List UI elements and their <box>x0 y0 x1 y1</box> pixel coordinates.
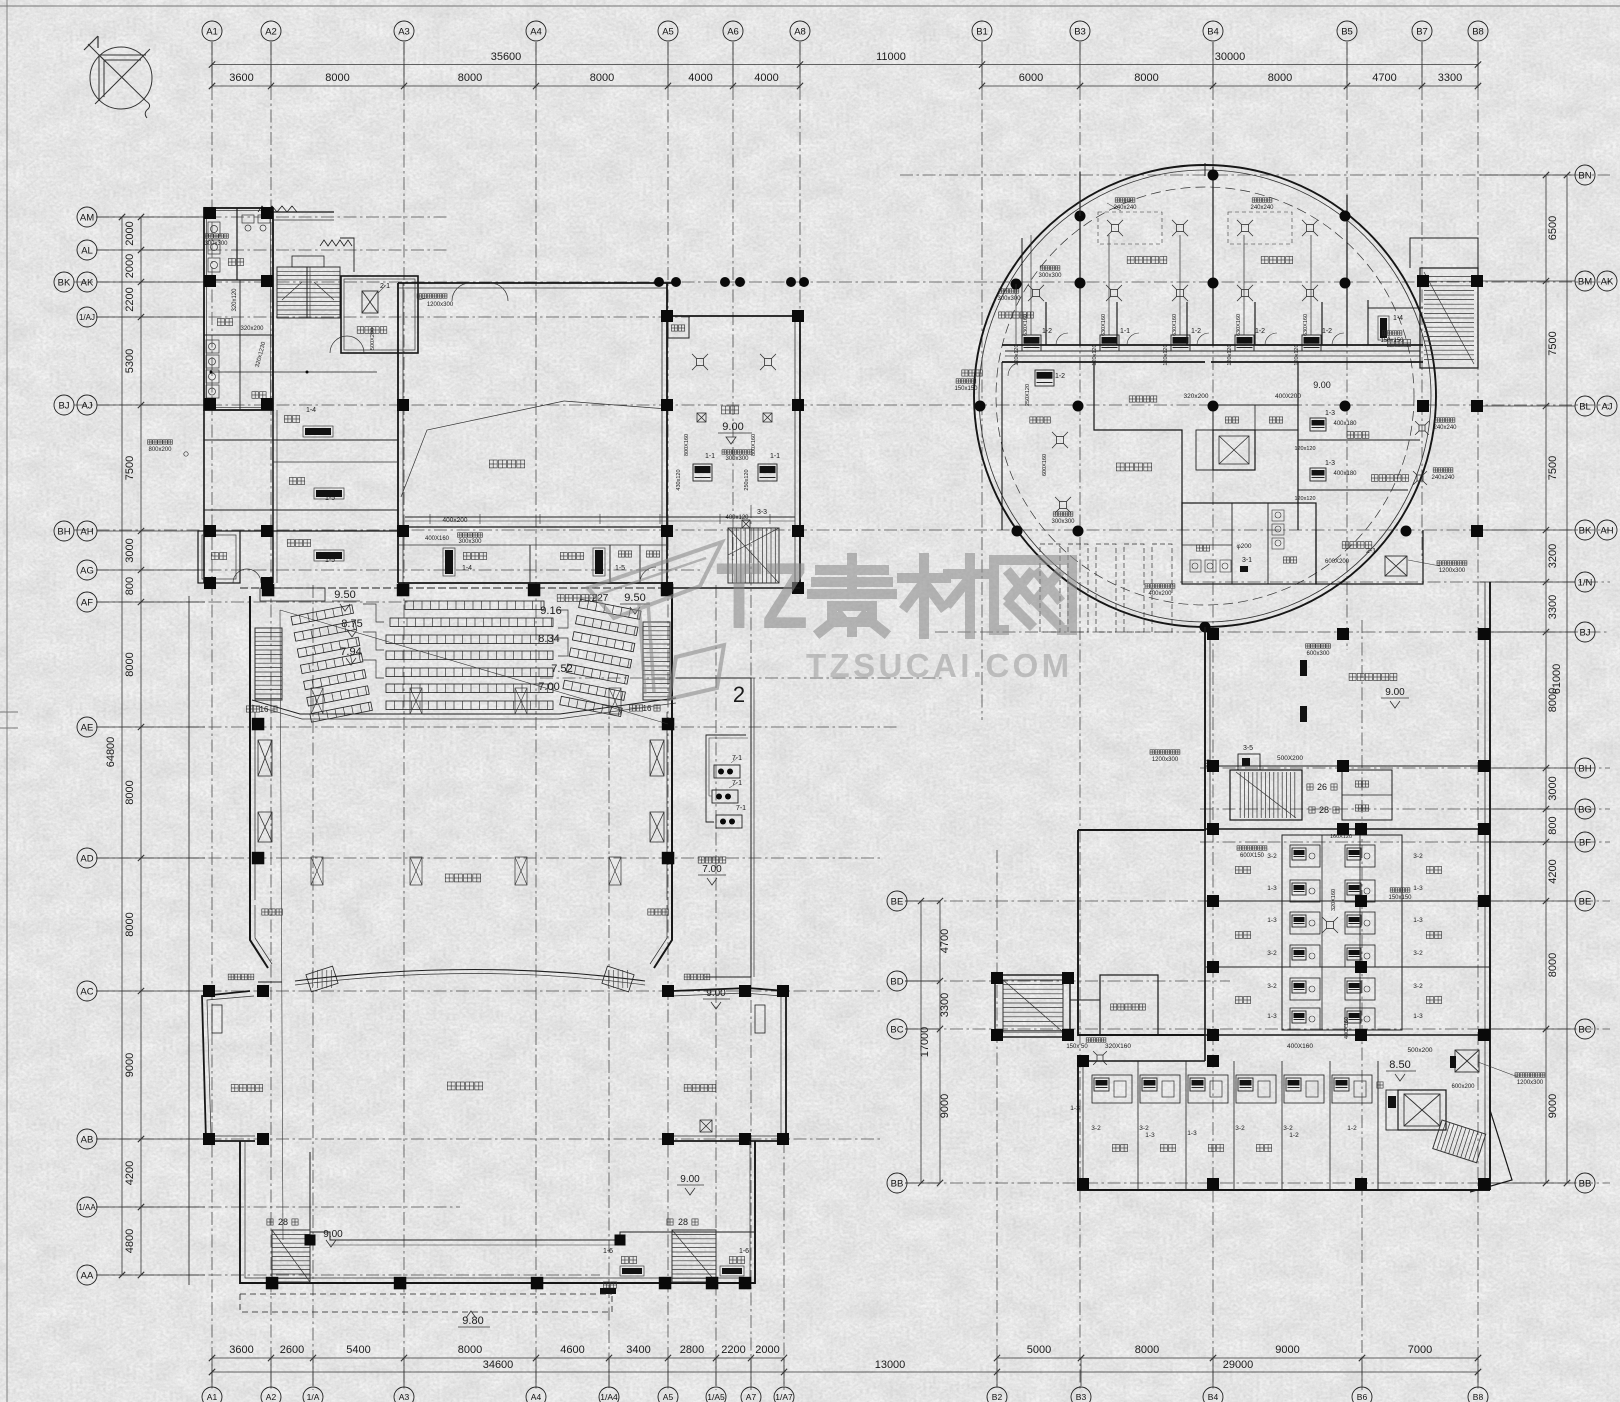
svg-text:4000: 4000 <box>754 72 778 84</box>
metal ladder labels <box>228 974 254 980</box>
columns AC AB rows stage <box>203 985 215 997</box>
svg-text:1-4: 1-4 <box>306 407 316 414</box>
svg-text:1/A4: 1/A4 <box>600 1392 618 1402</box>
west wing partitions <box>204 439 398 441</box>
svg-text:9.00: 9.00 <box>1313 380 1331 390</box>
axis bubbles right <box>1575 165 1595 185</box>
svg-text:3600: 3600 <box>229 1344 253 1356</box>
svg-text:7500: 7500 <box>124 456 136 480</box>
svg-text:120x120: 120x120 <box>1092 344 1098 365</box>
svg-text:8000: 8000 <box>1134 72 1158 84</box>
south annex outer wall <box>240 1141 755 1283</box>
svg-text:320X160: 320X160 <box>1331 889 1337 911</box>
svg-text:150x150: 150x150 <box>1388 895 1412 901</box>
annex columns <box>204 207 216 219</box>
svg-text:630X160: 630X160 <box>1236 314 1242 336</box>
svg-text:BJ: BJ <box>1579 627 1590 638</box>
svg-text:AC: AC <box>80 986 93 997</box>
svg-text:1-2: 1-2 <box>1322 328 1332 335</box>
svg-text:TZ: TZ <box>716 543 808 648</box>
svg-text:1200x300: 1200x300 <box>1152 757 1179 763</box>
svg-text:61000: 61000 <box>1551 664 1563 695</box>
stage columns AE AD rows <box>252 718 264 731</box>
svg-text:630X160: 630X160 <box>1023 314 1029 336</box>
axis bubbles left <box>77 207 97 227</box>
stage west wall <box>249 596 251 905</box>
svg-text:B7: B7 <box>1416 26 1428 37</box>
svg-text:2000: 2000 <box>755 1344 779 1356</box>
svg-text:250X120: 250X120 <box>1025 384 1031 406</box>
horizontal grid axes right building <box>900 174 1610 176</box>
svg-text:B6: B6 <box>1357 1392 1368 1402</box>
svg-text:150x150: 150x150 <box>1380 338 1404 344</box>
svg-text:9.00: 9.00 <box>1385 687 1405 698</box>
svg-text:34600: 34600 <box>483 1359 514 1371</box>
main hall top wall <box>398 282 672 284</box>
svg-text:1-4: 1-4 <box>1393 315 1403 322</box>
svg-text:1-1: 1-1 <box>1120 328 1130 335</box>
svg-text:7.00: 7.00 <box>702 864 722 875</box>
annex internal walls <box>204 279 273 281</box>
svg-text:600x300: 600x300 <box>1306 651 1330 657</box>
radial partition walls upper <box>1079 172 1081 345</box>
conference columns <box>661 310 673 322</box>
watermark logo parallelogram <box>669 645 724 699</box>
svg-text:2200: 2200 <box>124 287 136 311</box>
svg-text:8000: 8000 <box>124 652 136 676</box>
svg-text:4600: 4600 <box>560 1344 584 1356</box>
watermark CJK glyphs su cai wang <box>812 558 1072 634</box>
svg-text:400x180: 400x180 <box>1333 471 1357 477</box>
svg-text:1/A: 1/A <box>307 1392 320 1402</box>
office labels mid section <box>1235 867 1250 874</box>
svg-text:7-1: 7-1 <box>736 805 746 812</box>
svg-text:7500: 7500 <box>1547 331 1559 355</box>
svg-text:A3: A3 <box>398 26 410 37</box>
canopy dashed outline <box>240 1294 612 1312</box>
svg-text:A4: A4 <box>530 26 542 37</box>
svg-text:8000: 8000 <box>1135 1344 1159 1356</box>
svg-text:4700: 4700 <box>1372 72 1396 84</box>
top dimension rails <box>212 64 1478 66</box>
svg-text:BJ: BJ <box>58 400 69 411</box>
svg-text:320x200: 320x200 <box>1184 393 1209 400</box>
conference ceiling symbols <box>697 359 704 366</box>
svg-text:1200x300: 1200x300 <box>427 302 454 308</box>
lower right building upper block walls <box>1078 627 1205 830</box>
ear-light rooms <box>250 905 268 968</box>
svg-text:11000: 11000 <box>876 51 906 63</box>
sheet border <box>0 5 1620 7</box>
svg-text:500X200: 500X200 <box>370 328 376 350</box>
svg-text:BK: BK <box>58 277 71 288</box>
svg-text:800: 800 <box>124 577 136 595</box>
diffuser duct labels <box>1115 198 1135 202</box>
axis bubbles right-building left side <box>887 891 907 911</box>
columns squares right side circle <box>1417 275 1429 287</box>
conference labels <box>722 406 739 414</box>
NW stair upper landing <box>292 256 324 267</box>
svg-text:320x120: 320x120 <box>232 288 238 312</box>
svg-text:AA: AA <box>81 1270 94 1281</box>
svg-text:300x300: 300x300 <box>997 296 1021 302</box>
svg-text:AG: AG <box>80 565 94 576</box>
svg-text:B1: B1 <box>976 26 988 37</box>
svg-text:2800: 2800 <box>680 1344 704 1356</box>
watermark logo pennant <box>588 542 722 618</box>
svg-text:9.50: 9.50 <box>624 592 645 604</box>
svg-text:BD: BD <box>890 976 903 987</box>
svg-text:300x300: 300x300 <box>1038 273 1062 279</box>
book storage duct <box>1306 644 1331 648</box>
svg-text:600x200: 600x200 <box>1451 1084 1475 1090</box>
svg-text:300x300: 300x300 <box>725 456 749 462</box>
svg-text:17000: 17000 <box>919 1027 931 1058</box>
elevator bottom wing <box>1398 1090 1446 1130</box>
arc end hatched steps <box>306 966 338 992</box>
svg-text:2: 2 <box>733 682 745 707</box>
svg-text:3-5: 3-5 <box>1243 745 1253 752</box>
svg-text:B5: B5 <box>1341 26 1353 37</box>
svg-text:9.00: 9.00 <box>722 421 743 433</box>
horizontal grid axes left building <box>96 216 450 218</box>
svg-text:13000: 13000 <box>875 1359 906 1371</box>
svg-text:6000: 6000 <box>1019 72 1043 84</box>
svg-text:A3: A3 <box>399 1392 410 1402</box>
annex text tiny duct labels <box>204 234 229 238</box>
svg-text:1200x300: 1200x300 <box>1439 568 1466 574</box>
svg-text:600X200: 600X200 <box>1325 559 1350 565</box>
circle bottom parking strips <box>1040 544 1060 632</box>
corridor partition stubs <box>1045 302 1047 345</box>
svg-text:600X150: 600X150 <box>1240 853 1265 859</box>
svg-text:9.50: 9.50 <box>334 589 355 601</box>
horizontal grid row 1/AE <box>540 677 945 679</box>
svg-text:1/A7: 1/A7 <box>775 1392 793 1402</box>
7-1 duct loop <box>706 735 746 822</box>
office labels and units west wing <box>284 416 299 423</box>
west wing fire corridor east wall <box>397 283 399 583</box>
conference south stair <box>728 528 779 583</box>
vertical grid axes B <box>981 42 983 720</box>
corridor fire shutter label <box>1129 396 1157 402</box>
svg-text:26: 26 <box>1317 782 1327 792</box>
svg-text:120x120: 120x120 <box>1294 344 1300 365</box>
svg-text:1-5: 1-5 <box>615 565 625 572</box>
svg-text:3-1: 3-1 <box>1242 557 1252 564</box>
svg-text:A6: A6 <box>727 26 739 37</box>
svg-text:64800: 64800 <box>105 737 117 768</box>
svg-text:BH: BH <box>57 526 70 537</box>
center seating block <box>405 601 544 610</box>
watermark logo mast <box>639 604 645 694</box>
svg-text:AD: AD <box>80 853 93 864</box>
rooms right of core <box>1297 362 1299 530</box>
svg-text:3000: 3000 <box>1547 776 1559 800</box>
side stage east outline <box>672 988 786 1141</box>
ceiling grid dashed outlines <box>1098 212 1162 244</box>
svg-text:28: 28 <box>1319 805 1329 815</box>
main hall diagonals <box>401 401 564 497</box>
hall void label right <box>1116 463 1151 471</box>
svg-text:240x240: 240x240 <box>1431 475 1455 481</box>
svg-text:1-2: 1-2 <box>1055 373 1065 380</box>
svg-text:7.94: 7.94 <box>340 646 361 658</box>
black dot pairs on AK row <box>654 277 664 287</box>
svg-text:BE: BE <box>891 896 904 907</box>
svg-text:1-4: 1-4 <box>462 565 472 572</box>
annex labels <box>267 1219 273 1225</box>
svg-text:320X160: 320X160 <box>1105 1043 1131 1050</box>
svg-text:1-2: 1-2 <box>1042 328 1052 335</box>
aisle step lines <box>363 604 384 622</box>
svg-text:1-1: 1-1 <box>770 453 780 460</box>
svg-text:1-3: 1-3 <box>1325 410 1335 417</box>
svg-text:7000: 7000 <box>1408 1344 1432 1356</box>
stage void labels <box>447 1082 482 1090</box>
ceiling diffusers row2 <box>1033 290 1040 297</box>
analysis room diffusers <box>1057 437 1064 444</box>
svg-text:400x200: 400x200 <box>443 517 468 524</box>
svg-text:4200: 4200 <box>1547 859 1559 883</box>
annex columns bottom <box>266 1277 279 1290</box>
bottom wing top wall <box>1078 1060 1205 1062</box>
pool void label <box>445 874 480 882</box>
svg-text:8000: 8000 <box>458 72 482 84</box>
svg-text:250x120: 250x120 <box>744 469 750 490</box>
svg-text:BH: BH <box>1578 763 1591 774</box>
circular building inner dashed circle <box>996 187 1414 605</box>
svg-text:120x120: 120x120 <box>1294 446 1315 452</box>
svg-text:630X160: 630X160 <box>1172 314 1178 336</box>
svg-text:320x200: 320x200 <box>240 326 264 332</box>
under-seat truss symbols <box>311 688 323 714</box>
svg-text:BM: BM <box>1578 276 1592 287</box>
toilets south middle <box>1182 503 1316 584</box>
svg-text:A4: A4 <box>531 1392 542 1402</box>
circular building outer wall <box>974 165 1436 627</box>
elevator core <box>1213 430 1255 470</box>
svg-text:500x200: 500x200 <box>1408 1047 1433 1054</box>
columns at auditorium north wall <box>262 584 275 597</box>
svg-text:240x240: 240x240 <box>1433 425 1457 431</box>
office mid-section outer walls <box>1078 830 1205 1035</box>
left rooms walls below corridor <box>1001 362 1003 530</box>
svg-text:1-3: 1-3 <box>1070 1105 1080 1112</box>
book storage label <box>1349 674 1397 681</box>
svg-text:1-1: 1-1 <box>705 453 715 460</box>
corridor connecting <box>1070 999 1100 1001</box>
left seating bank (tilted) <box>291 605 372 722</box>
ceiling diffusers row1 <box>1112 225 1119 232</box>
svg-text:5400: 5400 <box>346 1344 370 1356</box>
svg-text:150x 50: 150x 50 <box>1066 1044 1088 1050</box>
auditorium north landing wall <box>240 587 667 589</box>
annex room labels <box>228 259 243 266</box>
main hall label <box>489 460 524 468</box>
svg-text:1200x300: 1200x300 <box>1517 1080 1544 1086</box>
svg-text:3600: 3600 <box>229 72 253 84</box>
svg-text:AK: AK <box>1601 276 1614 287</box>
courtyard wall second line <box>330 1244 620 1246</box>
west aisle stair strip <box>255 628 282 700</box>
svg-text:800: 800 <box>1547 816 1559 834</box>
west stair block lower bldg <box>995 975 1070 1037</box>
svg-text:4800: 4800 <box>124 1229 136 1253</box>
svg-text:9.80: 9.80 <box>462 1315 483 1327</box>
svg-text:9.00: 9.00 <box>706 988 726 999</box>
hall east wall <box>666 283 668 588</box>
svg-text:A1: A1 <box>206 26 218 37</box>
svg-text:630X160: 630X160 <box>1303 314 1309 336</box>
svg-text:3200: 3200 <box>1547 544 1559 568</box>
svg-text:BG: BG <box>1578 804 1592 815</box>
office AC units cluster <box>1290 845 1320 867</box>
svg-text:1/A5: 1/A5 <box>707 1392 725 1402</box>
columns along AJ AH rows <box>204 525 216 537</box>
svg-text:1/N: 1/N <box>1578 577 1593 588</box>
svg-text:240x240: 240x240 <box>1113 205 1137 211</box>
svg-text:9000: 9000 <box>1275 1344 1299 1356</box>
electrical rooms <box>1213 405 1298 430</box>
fan coil row on corridor <box>1022 335 1041 351</box>
axis bubbles bottom <box>202 1387 222 1402</box>
BH row wall in tall block <box>1205 765 1490 767</box>
svg-text:AJ: AJ <box>81 400 92 411</box>
svg-text:1-3: 1-3 <box>1187 1130 1197 1137</box>
svg-text:2-1: 2-1 <box>380 283 390 290</box>
conference block NE <box>667 315 800 317</box>
svg-text:8.50: 8.50 <box>1389 1059 1410 1071</box>
right seating bank (tilted) <box>560 599 641 716</box>
svg-text:7-1: 7-1 <box>732 780 742 787</box>
stairs SW <box>272 1230 310 1282</box>
svg-text:B4: B4 <box>1207 26 1219 37</box>
svg-text:1-3: 1-3 <box>1325 460 1335 467</box>
svg-text:AJ: AJ <box>1601 401 1612 412</box>
corridor double door below stair <box>330 336 347 353</box>
room labels upper circle <box>1127 257 1167 264</box>
right building left dimension rail <box>920 901 922 1183</box>
left building: NW annex (toilets) outer walls <box>204 208 273 410</box>
svg-text:9000: 9000 <box>939 1094 951 1118</box>
toilet fixtures female <box>206 340 219 353</box>
hall south duct <box>405 516 795 518</box>
svg-text:3000: 3000 <box>124 538 136 562</box>
circle interior vertical duct lines <box>1079 172 1081 216</box>
svg-text:3-2: 3-2 <box>1283 1125 1293 1132</box>
side stage west outline <box>202 991 255 1141</box>
svg-text:φ200: φ200 <box>1236 543 1251 550</box>
stage interior truss symbols <box>311 857 323 885</box>
svg-text:B2: B2 <box>992 1392 1003 1402</box>
conference south wall <box>667 587 800 589</box>
svg-text:5300: 5300 <box>124 349 136 373</box>
svg-text:16: 16 <box>643 704 652 713</box>
svg-text:3-3: 3-3 <box>757 509 767 516</box>
svg-text:9.16: 9.16 <box>540 605 561 617</box>
svg-text:300x300: 300x300 <box>458 539 482 545</box>
svg-text:9.00: 9.00 <box>323 1229 343 1240</box>
east aisle stair strip <box>643 622 670 700</box>
svg-text:2000: 2000 <box>124 254 136 278</box>
svg-text:28: 28 <box>678 1217 688 1227</box>
right dimension rail <box>1545 175 1547 1183</box>
svg-text:150x150: 150x150 <box>954 386 978 392</box>
NW stair porch jog <box>340 238 354 272</box>
svg-text:A5: A5 <box>663 1392 674 1402</box>
right side AHU <box>1455 1050 1479 1072</box>
svg-text:1-3: 1-3 <box>1413 885 1423 892</box>
svg-text:B3: B3 <box>1076 1392 1087 1402</box>
svg-text:BC: BC <box>890 1024 903 1035</box>
svg-text:B8: B8 <box>1472 26 1484 37</box>
equipment platform label <box>698 857 726 863</box>
svg-text:35600: 35600 <box>491 51 522 63</box>
svg-text:A7: A7 <box>746 1392 757 1402</box>
columns lower right building <box>1207 628 1219 640</box>
svg-text:3-2: 3-2 <box>1267 853 1277 860</box>
svg-text:3-2: 3-2 <box>1267 950 1277 957</box>
xia16 labels <box>246 706 259 712</box>
tutor room walls <box>1367 300 1369 345</box>
svg-text:A8: A8 <box>794 26 806 37</box>
svg-text:6500: 6500 <box>1547 216 1559 240</box>
svg-text:8000: 8000 <box>458 1344 482 1356</box>
svg-text:2200: 2200 <box>721 1344 745 1356</box>
svg-text:3-2: 3-2 <box>1267 983 1277 990</box>
svg-text:300x300: 300x300 <box>1051 519 1075 525</box>
svg-text:9000: 9000 <box>1547 1094 1559 1118</box>
svg-text:1-2: 1-2 <box>1347 1125 1357 1132</box>
network room <box>1100 975 1158 1035</box>
strip small symbols <box>445 550 453 574</box>
svg-text:3-2: 3-2 <box>1139 1125 1149 1132</box>
svg-text:TZSUCAI.COM: TZSUCAI.COM <box>806 647 1073 684</box>
bottom wing labels <box>1112 1145 1127 1152</box>
svg-text:BC: BC <box>1578 1024 1591 1035</box>
columns dots on circle grid <box>1208 170 1219 181</box>
svg-text:1-3: 1-3 <box>1413 1013 1423 1020</box>
svg-text:B4: B4 <box>1208 1392 1219 1402</box>
center toilet core upper <box>1282 835 1402 1030</box>
svg-text:16: 16 <box>260 705 269 714</box>
svg-text:1-3: 1-3 <box>1267 917 1277 924</box>
svg-text:3-2: 3-2 <box>1235 1125 1245 1132</box>
east terrace outline <box>676 678 751 977</box>
svg-text:240x240: 240x240 <box>1250 205 1274 211</box>
svg-text:7500: 7500 <box>1547 456 1559 480</box>
svg-text:AK: AK <box>81 277 94 288</box>
stairs SE <box>672 1230 716 1282</box>
7-1 unit boxes <box>714 765 740 778</box>
horizontal grid axes shared rows AK AJ AH <box>74 281 1610 283</box>
svg-text:AH: AH <box>80 526 93 537</box>
duct line to sprinkler zone <box>211 371 377 373</box>
xbox small near AB <box>700 1120 712 1132</box>
svg-text:8000: 8000 <box>325 72 349 84</box>
vertical grid axes A <box>211 42 213 1390</box>
svg-text:1-6: 1-6 <box>603 1248 613 1255</box>
west wall light boxes <box>258 740 272 776</box>
svg-text:1-2: 1-2 <box>1289 1132 1299 1139</box>
bottom wing outline <box>1078 1061 1490 1190</box>
svg-text:3-2: 3-2 <box>1413 983 1423 990</box>
svg-text:300x300: 300x300 <box>204 241 228 247</box>
svg-text:1/AJ: 1/AJ <box>79 313 95 322</box>
site boundary line west of theater <box>188 596 190 1285</box>
long diagonal cable line <box>280 610 668 724</box>
